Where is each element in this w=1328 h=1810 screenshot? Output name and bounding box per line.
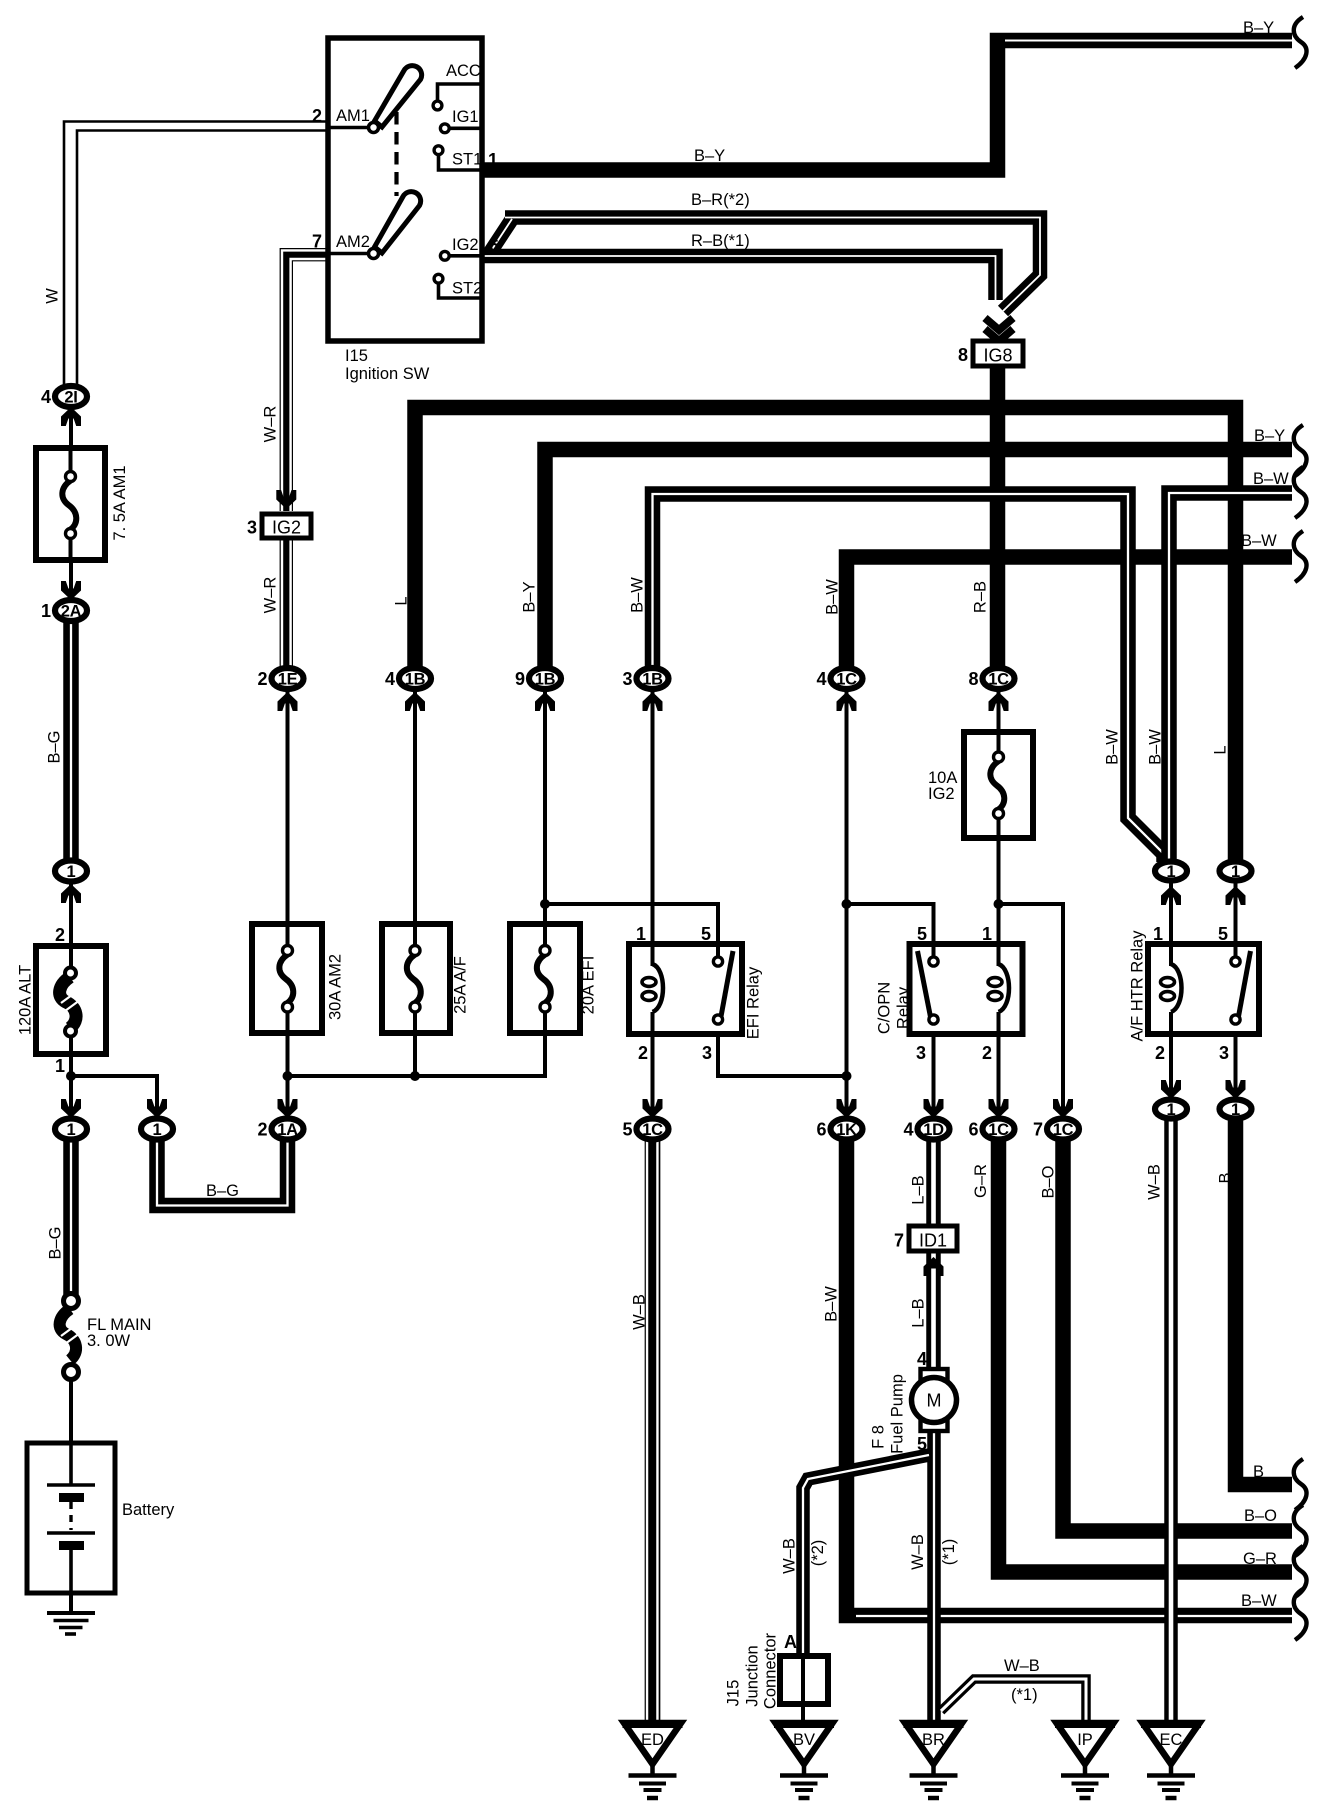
svg-text:B–R(*2): B–R(*2): [691, 191, 750, 209]
svg-text:1: 1: [1231, 1101, 1240, 1119]
ground triangle BV (BV ground): [776, 1723, 833, 1764]
svg-text:3. 0W: 3. 0W: [87, 1332, 131, 1350]
connector connector 1 below A/F pin 2: [1155, 1100, 1187, 1119]
svg-text:1: 1: [67, 863, 76, 881]
svg-text:3: 3: [622, 669, 632, 689]
wire L-B wire from 4 1D to ID1: [926, 1140, 941, 1228]
connector 1 2A: [55, 600, 87, 621]
svg-text:I15: I15: [345, 347, 368, 365]
svg-text:1B: 1B: [405, 670, 426, 688]
svg-text:5: 5: [622, 1120, 632, 1140]
page-continuation break B-W mid: [1294, 531, 1307, 582]
AM2 terminal and lever: [330, 252, 369, 256]
wire W-B (*2) wire from fuel pump to J15 junction connector: [803, 1455, 929, 1657]
svg-text:2: 2: [312, 106, 322, 126]
wire B-G wire from connector 1 down to FL MAIN: [63, 1140, 79, 1295]
ground symbol under BR: [931, 1764, 936, 1776]
svg-text:B–W: B–W: [823, 579, 841, 615]
svg-text:W–B: W–B: [1004, 1657, 1040, 1675]
arrow into connector 1: [147, 1099, 167, 1118]
svg-text:W–B: W–B: [909, 1534, 927, 1570]
wire R-B from IG8 box down to connector 8 1C: [990, 364, 1006, 670]
svg-text:Junction: Junction: [743, 1645, 761, 1706]
svg-text:5: 5: [1218, 924, 1228, 944]
ground triangle IP (IP ground): [1057, 1723, 1114, 1764]
wire W-B (*1) branch wire from BR to IP ground: [941, 1679, 1086, 1722]
arrow into junction 3 IG2: [276, 490, 296, 509]
wire B-W wire from right break down to A/F HTR relay oval: [1169, 493, 1292, 862]
junction connector 7 ID1: [909, 1226, 957, 1251]
svg-text:1: 1: [982, 924, 992, 944]
wire B-Y from ST1 to top-right break: [482, 41, 1292, 171]
wire W-B from 5 1C down to ED ground (triple line): [645, 1138, 661, 1722]
svg-text:(*2): (*2): [809, 1540, 827, 1567]
ground symbol under ED: [650, 1764, 655, 1776]
IG1 terminal: [449, 127, 480, 131]
svg-text:B–W: B–W: [1253, 470, 1289, 488]
svg-text:5: 5: [917, 924, 927, 944]
wire wire junction to C/OPN relay pin 5: [847, 904, 934, 958]
svg-text:1: 1: [1167, 863, 1176, 881]
svg-text:BV: BV: [793, 1731, 815, 1749]
wire wire 2I to fuse 7.5A AM1: [69, 408, 73, 450]
svg-text:B–Y: B–Y: [520, 581, 538, 612]
svg-text:1: 1: [41, 601, 51, 621]
svg-text:30A AM2: 30A AM2: [326, 954, 344, 1020]
svg-text:B–G: B–G: [206, 1182, 239, 1200]
svg-text:B–O: B–O: [1039, 1165, 1057, 1198]
svg-text:B–W: B–W: [1241, 532, 1277, 550]
svg-text:2I: 2I: [64, 388, 77, 406]
wire B-G U-shaped wire from connector 1 to connector 2 1A: [157, 1140, 288, 1206]
wire wire C/OPN relay pin 3 to connector 4 1D: [932, 1023, 936, 1118]
svg-text:2: 2: [1155, 1043, 1165, 1063]
junction node at fuse 20A EFI top: [540, 899, 550, 909]
fusible link FL MAIN 3.0W: [60, 1309, 76, 1360]
svg-text:1C: 1C: [642, 1121, 663, 1139]
svg-text:6: 6: [968, 1120, 978, 1140]
svg-text:4: 4: [917, 1349, 927, 1369]
svg-text:L: L: [392, 596, 410, 605]
svg-text:1: 1: [55, 1056, 65, 1076]
wire W-R from junction 3 IG2 down to connector 2 1E (triple line): [280, 539, 293, 670]
svg-text:7: 7: [894, 1231, 904, 1251]
svg-text:ST1: ST1: [452, 151, 482, 169]
wire B-R(*2) from IG2 pin to IG8 arrow: [489, 218, 1040, 312]
svg-text:R–B: R–B: [971, 581, 989, 613]
relay switch contact: [918, 951, 932, 1022]
svg-text:G–R: G–R: [972, 1164, 990, 1198]
wire wire bus to fuse 20A EFI bottom: [288, 1033, 546, 1076]
arrow into 7 1C: [1053, 1099, 1073, 1118]
connector 5 1C: [637, 1119, 669, 1140]
wire wire 120A ALT pin 1 down to connector 1: [69, 1052, 73, 1118]
wire wire fuse 7.5A AM1 to 2A: [69, 558, 73, 600]
connector 9 1B: [529, 668, 561, 689]
relay switch contact: [1238, 951, 1251, 1022]
arrow into 2A: [61, 581, 81, 600]
svg-text:IG2: IG2: [272, 518, 301, 538]
svg-text:1: 1: [636, 924, 646, 944]
svg-text:W: W: [43, 288, 61, 304]
svg-text:1D: 1D: [923, 1121, 944, 1139]
connector connector 1 branch: [141, 1119, 173, 1140]
ACC terminal: [438, 84, 481, 101]
svg-text:IG1: IG1: [452, 108, 479, 126]
wire wire fuse 30A AM2 to connector 2 1A: [286, 1033, 290, 1118]
svg-text:(*1): (*1): [940, 1539, 958, 1566]
page-continuation break B-W lower: [1294, 1589, 1307, 1640]
connector 2 1E: [272, 668, 304, 689]
arrow into connector 1 (A/F sw top): [1226, 886, 1246, 905]
arrow into 2 1A: [278, 1099, 298, 1118]
svg-text:W–B: W–B: [780, 1538, 798, 1574]
fuse 10A IG2: [964, 732, 1033, 838]
svg-text:8: 8: [958, 345, 968, 365]
relay A/F HTR Relay: [1148, 944, 1259, 1034]
page-continuation break B-Y top: [1294, 17, 1307, 68]
connector 3 1B: [637, 668, 669, 689]
battery: [27, 1443, 115, 1593]
fuse 20A EFI: [510, 924, 580, 1033]
IG2 terminal: [449, 254, 480, 258]
junction connector 8 IG8: [973, 341, 1023, 366]
svg-text:5: 5: [917, 1434, 927, 1454]
svg-text:1C: 1C: [1053, 1121, 1074, 1139]
page-continuation break B-O: [1294, 1505, 1307, 1556]
connector 8 1C: [983, 668, 1015, 689]
connector 7 1C: [1047, 1119, 1079, 1140]
svg-text:2A: 2A: [61, 602, 82, 620]
svg-text:4: 4: [385, 669, 395, 689]
svg-text:L–B: L–B: [909, 1298, 927, 1327]
relay EFI Relay: [629, 944, 742, 1034]
wire wire 4 1B to fuse 25A A/F: [413, 690, 417, 924]
svg-text:3: 3: [1219, 1043, 1229, 1063]
junction node at fuse 25A A/F bottom: [410, 1071, 420, 1081]
arrow into 2I: [61, 407, 81, 426]
svg-text:Relay: Relay: [894, 986, 912, 1029]
junction connector J15: [780, 1656, 828, 1704]
svg-text:6: 6: [489, 236, 499, 256]
svg-text:Battery: Battery: [122, 1501, 175, 1519]
switch position dashed line: [394, 112, 398, 196]
wire wire C/OPN relay pin 2 to connector 6 1C: [997, 1016, 1001, 1118]
junction node at fuse 30A AM2 bottom: [283, 1071, 293, 1081]
battery ground symbol: [47, 1611, 95, 1615]
wire wire 8 1C to fuse 10A IG2: [997, 690, 1001, 732]
svg-text:BR: BR: [922, 1731, 945, 1749]
wire wire FL MAIN to battery: [69, 1380, 73, 1443]
wire W from AM1 to connector 4 2I (double line): [64, 122, 328, 386]
arrow into 6 1K: [837, 1099, 857, 1118]
svg-text:1A: 1A: [277, 1121, 298, 1139]
arrow into connector 1 (A/F coil top): [1161, 886, 1181, 905]
svg-text:IP: IP: [1077, 1731, 1093, 1749]
svg-text:G–R: G–R: [1243, 1550, 1277, 1568]
svg-text:1C: 1C: [988, 670, 1009, 688]
svg-text:Fuel Pump: Fuel Pump: [888, 1374, 906, 1454]
svg-text:B: B: [1253, 1463, 1264, 1481]
svg-text:B–G: B–G: [46, 1226, 64, 1259]
fuel pump F 8: [921, 1369, 948, 1381]
arrow into 4 1D: [924, 1099, 944, 1118]
arrow into 4 1B: [405, 692, 425, 711]
wire B wire from A/F relay oval down and right to break: [1236, 1118, 1293, 1485]
fuse 25A A/F: [382, 924, 450, 1033]
wire wire A/F relay pin 3 to oval: [1234, 1023, 1238, 1098]
svg-text:8: 8: [968, 669, 978, 689]
svg-text:4: 4: [41, 387, 51, 407]
connector 4 1C: [831, 668, 863, 689]
wire R-B(*1) from IG2 pin to IG8 arrow: [482, 256, 996, 300]
wire wire connector 1 to 120A ALT: [69, 882, 73, 946]
svg-text:2: 2: [982, 1043, 992, 1063]
ground symbol under IP: [1083, 1764, 1088, 1776]
svg-text:1: 1: [1167, 1101, 1176, 1119]
svg-text:B–W: B–W: [1146, 729, 1164, 765]
wire B-W white core of horizontal run to break: [856, 1615, 1292, 1617]
wire B-W wire from 6 1K down and right to break: [847, 1138, 1293, 1616]
arrow into 6 1C: [989, 1099, 1009, 1118]
fuse 30A AM2: [252, 924, 322, 1033]
svg-text:B–Y: B–Y: [1254, 427, 1285, 445]
ground symbol under EC: [1169, 1764, 1174, 1776]
svg-text:ACC: ACC: [446, 62, 481, 80]
svg-text:R–B(*1): R–B(*1): [691, 232, 750, 250]
arrow into connector 1 (left): [61, 884, 81, 903]
svg-text:20A EFI: 20A EFI: [579, 956, 597, 1015]
wire B-O wire from 7 1C down and right to break: [1063, 1138, 1292, 1531]
svg-text:B–G: B–G: [45, 730, 63, 763]
svg-text:25A A/F: 25A A/F: [451, 956, 469, 1014]
svg-text:7: 7: [1033, 1120, 1043, 1140]
svg-text:Ignition SW: Ignition SW: [345, 365, 430, 383]
svg-text:B–Y: B–Y: [694, 147, 725, 165]
arrow into 8 1C: [989, 692, 1009, 711]
page-continuation break B-Y: [1294, 425, 1307, 476]
connector connector 1 above A/F pin 5: [1220, 862, 1252, 881]
wire B-Y wire: 9 1B up and right to break: [545, 450, 1292, 671]
connector connector 1 above A/F pin 1: [1155, 862, 1187, 881]
svg-text:1: 1: [488, 150, 498, 170]
svg-text:3: 3: [702, 1043, 712, 1063]
svg-text:W–R: W–R: [261, 406, 279, 443]
connector 4 1D: [918, 1119, 950, 1140]
svg-text:1: 1: [67, 1121, 76, 1139]
svg-text:B–O: B–O: [1244, 1507, 1277, 1525]
AM1 terminal and lever: [330, 126, 369, 130]
arrow into ID1: [924, 1257, 944, 1276]
wire wire fuse top junction to EFI relay pin 5: [545, 904, 718, 958]
svg-text:6: 6: [816, 1120, 826, 1140]
svg-text:ID1: ID1: [919, 1231, 947, 1251]
wire wire A/F relay oval to pin 1: [1169, 882, 1173, 960]
svg-text:5: 5: [701, 924, 711, 944]
svg-text:A: A: [784, 1632, 797, 1652]
wire wire fuse 10A IG2 to C/OPN relay pin 1: [997, 838, 1001, 960]
junction node at 120A ALT pin 1: [66, 1071, 76, 1081]
page-continuation break B-W upper: [1294, 467, 1307, 518]
svg-text:F 8: F 8: [869, 1425, 887, 1449]
svg-text:1: 1: [1231, 863, 1240, 881]
svg-text:IG8: IG8: [983, 346, 1012, 366]
arrow into connector 1: [61, 1099, 81, 1118]
junction node at EFI relay pin 3 branch: [842, 1071, 852, 1081]
svg-text:A/F HTR Relay: A/F HTR Relay: [1128, 930, 1146, 1042]
wire wire 2 1E to fuse 30A AM2: [286, 690, 290, 924]
wire wire branch to second connector 1: [71, 1076, 157, 1118]
svg-text:B–W: B–W: [1241, 1592, 1277, 1610]
wire L wire: 4 1B up, across, down to A/F HTR relay oval: [415, 408, 1236, 863]
svg-text:AM2: AM2: [336, 233, 370, 251]
wire wire fuse 25A A/F to bus: [413, 1033, 417, 1076]
connector connector 1 left: [55, 861, 87, 882]
ST2 terminal: [439, 284, 481, 298]
svg-text:W–B: W–B: [630, 1294, 648, 1330]
relay C/OPN Relay: [910, 944, 1023, 1034]
svg-text:L–B: L–B: [909, 1175, 927, 1204]
wire wire 9 1B to fuse 20A EFI: [543, 690, 547, 924]
svg-text:C/OPN: C/OPN: [875, 982, 893, 1034]
svg-text:J15: J15: [724, 1680, 742, 1707]
svg-text:4: 4: [903, 1120, 913, 1140]
svg-text:7: 7: [312, 232, 322, 252]
svg-text:ST2: ST2: [452, 280, 482, 298]
wire G-R wire from 6 1C down and right to break: [999, 1138, 1293, 1572]
svg-text:B–Y: B–Y: [1243, 19, 1274, 37]
svg-text:(*1): (*1): [1011, 1686, 1038, 1704]
svg-text:EC: EC: [1160, 1731, 1183, 1749]
wire wire J15 to BV ground: [801, 1704, 805, 1723]
svg-text:2: 2: [638, 1043, 648, 1063]
arrow into 9 1B: [535, 692, 555, 711]
svg-text:120A ALT: 120A ALT: [16, 965, 34, 1035]
svg-text:IG2: IG2: [452, 236, 479, 254]
fuse 7.5A AM1: [36, 448, 105, 560]
svg-text:1: 1: [1153, 924, 1163, 944]
connector 6 1C: [983, 1119, 1015, 1140]
wire W-R from AM2 down to junction 3 IG2 (triple line): [286, 255, 328, 511]
svg-text:1K: 1K: [836, 1121, 857, 1139]
arrow into 4 1C: [837, 692, 857, 711]
wire L-B wire from ID1 to fuel pump: [926, 1248, 941, 1372]
wire W-B (*1) wire from fuel pump to BR ground: [927, 1428, 941, 1722]
connector connector 1 lower-left: [55, 1119, 87, 1140]
arrow into 5 1C: [643, 1099, 663, 1118]
wire B-Y white core of top horizontal run: [1005, 40, 1292, 42]
svg-text:AM1: AM1: [336, 107, 370, 125]
connector 4 1B: [399, 668, 431, 689]
svg-text:1E: 1E: [278, 670, 298, 688]
svg-text:2: 2: [257, 669, 267, 689]
connector 6 1K: [831, 1119, 863, 1140]
wire wire battery to ground: [69, 1592, 73, 1614]
ground triangle BR (BR ground): [905, 1723, 962, 1764]
svg-text:7. 5A AM1: 7. 5A AM1: [111, 465, 129, 540]
svg-text:1: 1: [153, 1121, 162, 1139]
ground symbol under BV: [802, 1764, 807, 1776]
page-continuation break B: [1294, 1459, 1307, 1510]
arrow into junction 8 IG8: [985, 318, 1013, 330]
svg-text:L: L: [1211, 745, 1229, 754]
svg-text:EFI Relay: EFI Relay: [744, 966, 762, 1039]
svg-text:B: B: [1216, 1172, 1234, 1183]
page-continuation break G-R: [1294, 1546, 1307, 1597]
svg-text:1B: 1B: [642, 670, 663, 688]
svg-text:1C: 1C: [836, 670, 857, 688]
ST1 terminal: [439, 155, 481, 170]
svg-text:3: 3: [916, 1043, 926, 1063]
svg-text:3: 3: [247, 518, 257, 538]
svg-text:B–W: B–W: [1103, 729, 1121, 765]
svg-text:9: 9: [515, 669, 525, 689]
svg-text:B–W: B–W: [628, 577, 646, 613]
wire wire A/F relay pin 2 to oval: [1169, 1016, 1173, 1098]
svg-text:2: 2: [257, 1120, 267, 1140]
svg-text:B–W: B–W: [822, 1286, 840, 1322]
fusible link 120A ALT: [36, 946, 106, 1054]
svg-text:W–B: W–B: [1145, 1164, 1163, 1200]
wire wire EFI relay pin 2 to connector 5 1C: [651, 1016, 655, 1118]
svg-text:4: 4: [816, 669, 826, 689]
wire B-W wire from 3 1B across and down to A/F HTR relay oval: [653, 494, 1165, 862]
svg-text:W–R: W–R: [261, 577, 279, 614]
svg-text:M: M: [927, 1391, 942, 1411]
junction node at fuse 10A IG2 bottom: [994, 899, 1004, 909]
relay switch contact: [720, 951, 733, 1022]
wire B-G wire from 2A to connector 1: [63, 618, 79, 860]
svg-text:ED: ED: [641, 1731, 664, 1749]
ground triangle ED (ED ground): [624, 1723, 681, 1764]
wire wire EFI relay pin 3 to junction: [718, 1023, 847, 1076]
arrow into connector 1 (A/F pin 2): [1161, 1080, 1181, 1099]
svg-text:Connector: Connector: [761, 1632, 779, 1709]
connector 2 1A: [272, 1119, 304, 1140]
connector connector 1 below A/F pin 3: [1220, 1100, 1252, 1119]
svg-text:2: 2: [55, 925, 65, 945]
wire wire A/F relay oval to pin 5: [1234, 882, 1238, 958]
svg-text:IG2: IG2: [928, 785, 955, 803]
wire wire 3 1B to EFI relay pin 1: [651, 690, 655, 960]
junction node at C/OPN relay pin 5 branch: [842, 899, 852, 909]
arrow into connector 1 (A/F pin 3): [1226, 1080, 1246, 1099]
wire wire 4 1C down to connector 6 1K: [845, 690, 849, 1118]
arrow into 2 1E: [278, 692, 298, 711]
connector 4 2I: [55, 386, 87, 407]
ground triangle EC (EC ground): [1143, 1723, 1200, 1764]
arrow into 3 1B: [643, 692, 663, 711]
wire B-W wire from right break down to connector 4 1C: [847, 557, 1293, 670]
wire wire junction to connector 7 1C: [999, 904, 1064, 1118]
ignition switch I15 box: [328, 38, 482, 341]
junction connector 3 IG2: [262, 514, 311, 538]
svg-text:1C: 1C: [988, 1121, 1009, 1139]
wire W-B wire from A/F relay oval to EC ground: [1164, 1118, 1178, 1722]
svg-text:1B: 1B: [535, 670, 556, 688]
